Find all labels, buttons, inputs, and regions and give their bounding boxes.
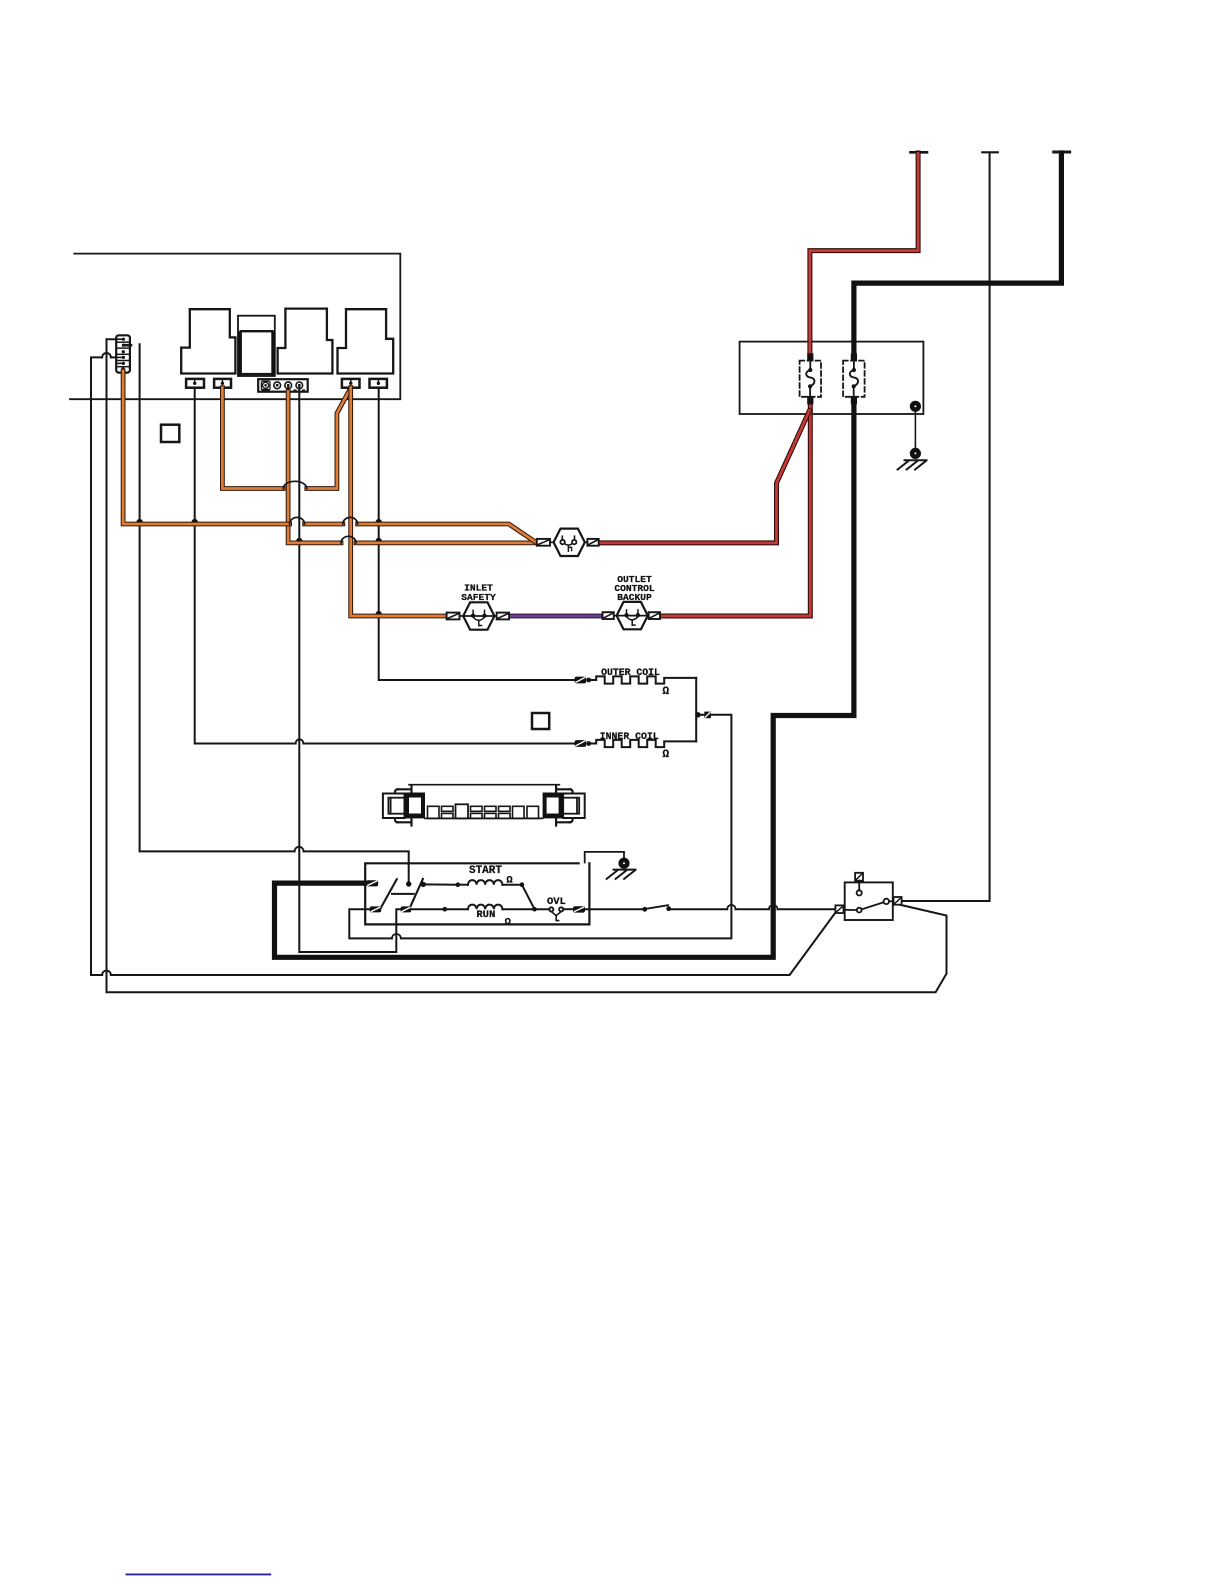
wire purple between hexagon T2 and T3 <box>509 614 602 619</box>
terminal box TB1 <box>186 379 204 388</box>
wire orange TB2 loop to TB3 (down, right, up, diagonal) <box>222 388 350 489</box>
svg-text:START: START <box>469 865 502 877</box>
wire red L1: from cap down, left, down into fuse 1 <box>810 153 918 355</box>
wire orange J2 pin3 to water valve hexagon (down, right) <box>288 392 537 543</box>
pin 2 <box>122 344 125 347</box>
start contact dot at blade 2 tip <box>421 882 426 887</box>
inner coil heater <box>575 731 697 761</box>
svg-text:INNER COIL: INNER COIL <box>600 731 659 742</box>
pin 3 <box>122 350 125 353</box>
switch body S4 (castle outline 3) <box>338 309 394 373</box>
run winding terminal M2 <box>401 906 412 912</box>
key square symbol 2 <box>532 713 549 729</box>
node L2 supply cap (thick black line top) <box>1054 151 1070 154</box>
small black bumps where thin black wires hop colored runs <box>137 519 143 522</box>
svg-text:SAFETY: SAFETY <box>461 592 496 603</box>
centrifugal switch blade 1 <box>380 879 397 910</box>
switch body S3 (castle outline 2) <box>278 309 333 374</box>
switch mechanical link dash <box>392 893 414 895</box>
terminal lug at T1 right <box>585 539 599 546</box>
terminal box TB2 <box>214 379 231 388</box>
wire J1 pin1/pin5 to relay right terminal (black: left, down, right, up diagonal) <box>107 339 947 992</box>
overload output terminal <box>573 906 585 912</box>
connector J1 (6-pin inline connector) <box>116 335 131 372</box>
centrifugal switch blade 2 <box>409 879 423 910</box>
junction nub where N crosses thick L2 <box>988 281 992 285</box>
left end <box>383 794 405 819</box>
pin 6 <box>122 367 125 370</box>
run winding terminal M1 <box>370 906 382 912</box>
wire motor overload out to relay (black, with hops) <box>585 908 836 910</box>
run winding <box>411 905 549 929</box>
terminal lug at T1 left <box>537 539 554 546</box>
middle cells <box>425 817 543 819</box>
wire thin black N: from cap down to relay right terminal <box>902 153 990 901</box>
terminal box TB4 <box>370 379 387 388</box>
wire J1 pin4 to relay left terminal (black: left, down, right, diagonal) <box>91 357 836 975</box>
connector block J2 (4 round pins) <box>258 379 308 392</box>
fuse F2 (black line fuse) <box>843 353 865 404</box>
svg-text:Ω: Ω <box>662 749 669 761</box>
wire coil junction down and around to run winding (black) <box>349 715 731 939</box>
svg-text:BACKUP: BACKUP <box>617 592 652 603</box>
wire orange TB3 to inlet safety hexagon (down, right) <box>351 388 447 616</box>
svg-text:Ω: Ω <box>662 686 669 698</box>
pin 4 <box>122 356 125 359</box>
svg-text:Ω: Ω <box>506 875 513 887</box>
overload protector OVL <box>547 896 573 920</box>
fuse box <box>740 342 924 414</box>
coil common junction <box>695 678 711 742</box>
blue footer rule <box>127 1573 271 1575</box>
wire TB1 to inner coil (black, down then right) <box>195 388 575 744</box>
motor feed terminal (from thick black) <box>366 880 378 886</box>
thermostat hexagon T2 (inlet safety) <box>463 602 494 629</box>
terminal lug at T3 right <box>649 612 660 619</box>
ground (fuse box chassis ground) <box>898 401 927 470</box>
terminal lug at T2 right <box>494 613 509 620</box>
hop of pin4 wire over pin1 wire <box>102 353 111 357</box>
console (timer/control) outline box <box>70 254 400 400</box>
wire red branch: diagonal from fuse 1 bottom to water-valve hexagon row <box>598 411 809 543</box>
svg-text:RUN: RUN <box>476 909 495 921</box>
terminal lug at T3 left <box>603 612 617 619</box>
switch body S2 (double rectangle block) <box>238 316 276 376</box>
start winding <box>423 865 534 909</box>
motor box <box>365 863 589 924</box>
terminal lug at T2 left <box>447 613 464 620</box>
svg-text:Ω: Ω <box>505 917 512 929</box>
wire orange J1 pin6 to water valve hexagon (down, right, diagonal) <box>123 371 537 543</box>
thermostat hexagon T3 (outlet control backup) <box>617 602 648 629</box>
thermostat hexagon T1 (water temp switch) <box>554 529 585 556</box>
node N supply cap (thin black line top) <box>982 151 998 153</box>
wire TB4 to outer coil (black, down then right) <box>379 388 575 680</box>
wire thick black: fuse 2 bottom down, jog left, down, left along bottom, up to motor feed <box>275 404 854 958</box>
right end <box>563 794 585 819</box>
fuse F1 (red line fuse) <box>800 353 821 404</box>
terminal strip (edge connector) <box>383 785 585 826</box>
junction dot motor start contact <box>406 881 411 886</box>
node L1 supply cap (red line top) <box>911 151 928 154</box>
wire red: fuse 1 bottom down to outlet-control row, left to hexagon T3 <box>660 404 811 617</box>
wire J1 pin2 to motor start contact (black: down, right, down) <box>140 344 409 880</box>
terminal box TB3 <box>342 379 360 388</box>
outer coil heater <box>575 667 697 698</box>
hop arc bumps (wire jumps) <box>290 517 305 524</box>
wire J2 pin4 to run-winding loop (black: down, right, up to motor terminal) <box>299 392 400 953</box>
motor chassis ground <box>585 852 636 879</box>
switch body S1 (castle outline 1) <box>181 309 235 373</box>
wire thick black L2: cap down, left, down into fuse 2 <box>854 153 1062 355</box>
pin 1 <box>122 338 125 341</box>
key square symbol 1 <box>161 425 179 442</box>
svg-text:OUTER COIL: OUTER COIL <box>601 667 660 678</box>
svg-text:OVL: OVL <box>547 896 566 908</box>
relay (motor start relay) <box>835 873 901 920</box>
switch contacts on motor-relay wire <box>642 907 647 912</box>
pin 5 <box>122 362 125 365</box>
